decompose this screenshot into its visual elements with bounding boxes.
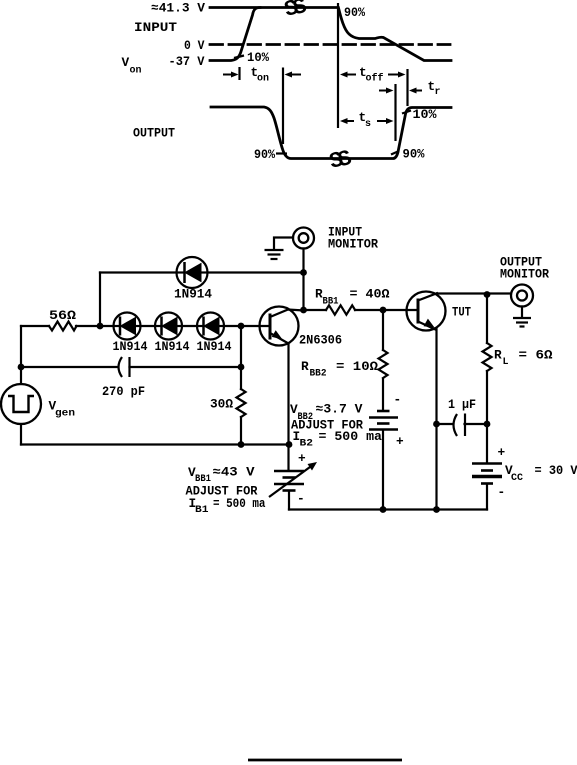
svg-text:1N914: 1N914 [197, 339, 232, 354]
svg-text:10%: 10% [247, 50, 269, 65]
svg-text:1 μF: 1 μF [448, 397, 476, 412]
svg-text:270 pF: 270 pF [102, 384, 145, 399]
svg-text:off: off [366, 73, 384, 85]
svg-text:= 30 V: = 30 V [535, 463, 577, 478]
svg-text:≈3.7 V: ≈3.7 V [316, 402, 363, 417]
svg-text:B1: B1 [195, 505, 209, 516]
svg-text:on: on [257, 74, 269, 85]
svg-text:1N914: 1N914 [174, 287, 212, 302]
svg-text:OUTPUT: OUTPUT [133, 126, 175, 141]
svg-text:CC: CC [511, 473, 523, 484]
svg-text:= 500 ma: = 500 ma [213, 496, 266, 511]
svg-text:s: s [365, 119, 371, 130]
svg-text:56Ω: 56Ω [49, 308, 76, 323]
svg-text:-37 V: -37 V [169, 54, 205, 69]
svg-text:-: - [394, 392, 402, 407]
svg-text:= 500 ma: = 500 ma [319, 429, 383, 444]
svg-text:V: V [122, 55, 130, 70]
svg-text:1N914: 1N914 [113, 339, 148, 354]
svg-text:MONITOR: MONITOR [500, 267, 549, 282]
svg-text:+: + [298, 451, 306, 466]
svg-text:90%: 90% [344, 5, 365, 20]
svg-text:= 40Ω: = 40Ω [350, 287, 390, 302]
svg-text:2N6306: 2N6306 [299, 333, 342, 348]
svg-text:10%: 10% [413, 107, 437, 122]
svg-text:30Ω: 30Ω [210, 397, 233, 412]
svg-text:B2: B2 [300, 439, 314, 450]
svg-text:0 V: 0 V [184, 38, 205, 53]
svg-text:BB2: BB2 [310, 369, 327, 380]
svg-text:R: R [494, 348, 502, 363]
svg-text:L: L [503, 357, 509, 368]
svg-text:INPUT: INPUT [134, 20, 177, 35]
svg-text:90%: 90% [403, 147, 425, 162]
svg-text:gen: gen [55, 409, 75, 420]
svg-text:1N914: 1N914 [155, 339, 190, 354]
svg-text:TUT: TUT [452, 305, 471, 320]
svg-text:r: r [435, 87, 441, 98]
svg-text:-: - [498, 485, 506, 500]
svg-text:BB1: BB1 [323, 297, 339, 308]
svg-text:on: on [130, 66, 142, 77]
svg-text:+: + [396, 434, 404, 449]
svg-text:≈41.3 V: ≈41.3 V [151, 1, 205, 16]
svg-text:90%: 90% [254, 147, 275, 162]
svg-text:MONITOR: MONITOR [328, 237, 378, 252]
svg-text:= 6Ω: = 6Ω [519, 348, 553, 363]
svg-text:≈43 V: ≈43 V [213, 465, 255, 480]
svg-text:R: R [301, 359, 309, 374]
svg-text:= 10Ω: = 10Ω [336, 359, 378, 374]
svg-text:+: + [498, 445, 506, 460]
svg-text:-: - [297, 491, 305, 506]
